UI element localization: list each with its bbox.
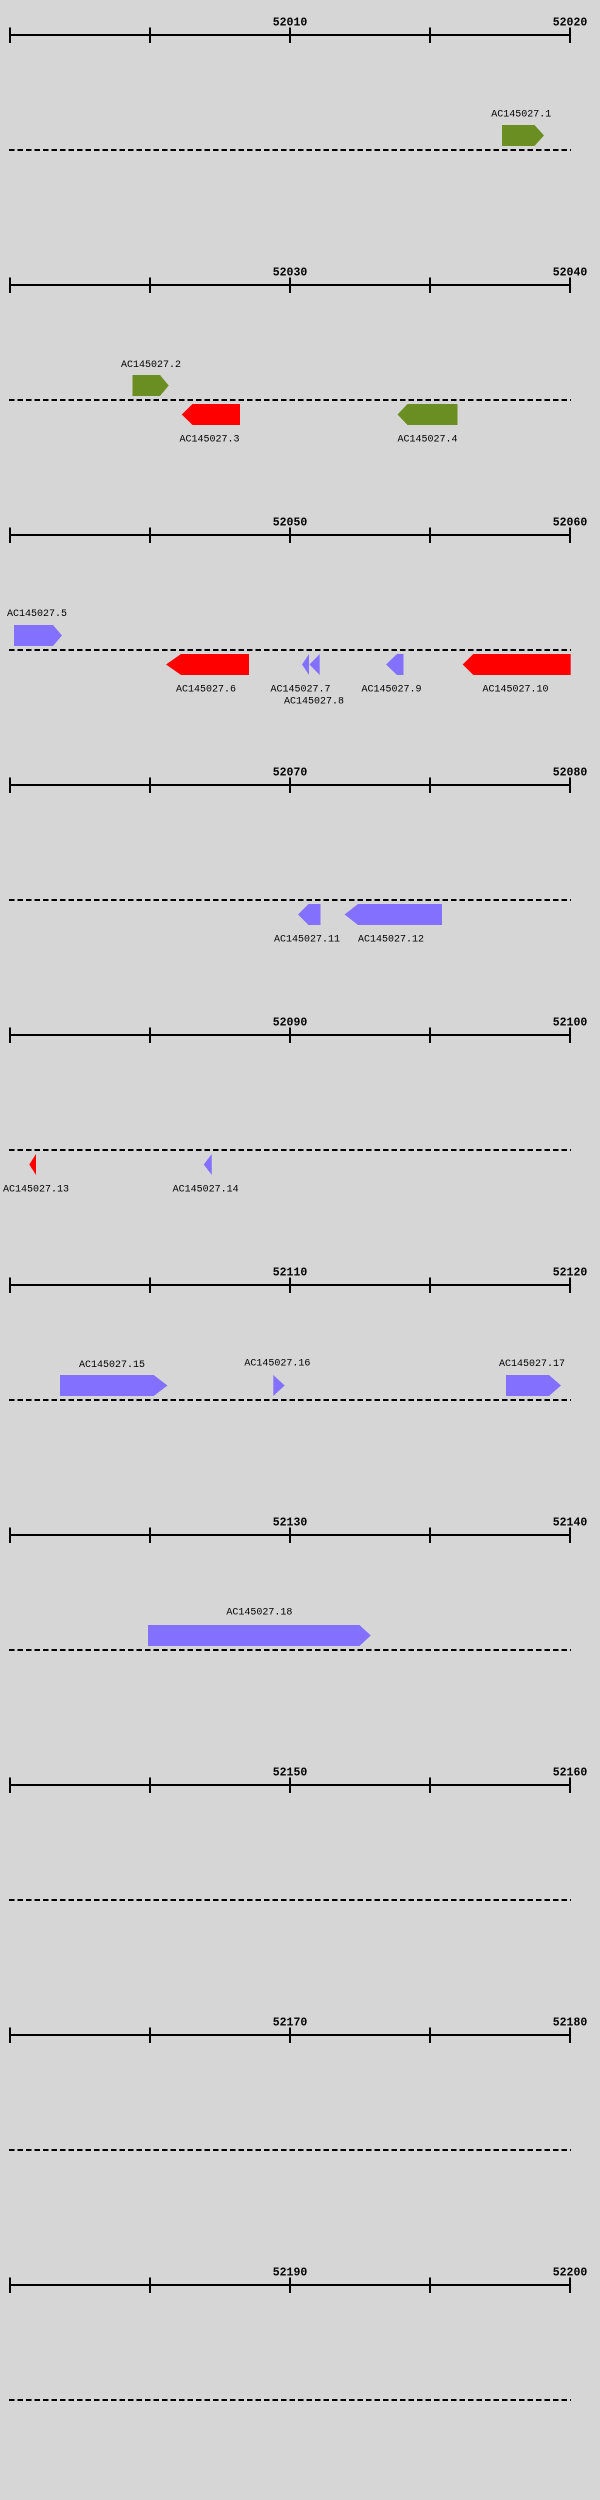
- svg-text:52180: 52180: [553, 2017, 588, 2030]
- label AC145027.6: [176, 685, 236, 696]
- ruler row 7: [9, 1528, 571, 1544]
- label AC145027.8: [284, 697, 344, 708]
- ruler label 52060: [553, 517, 588, 530]
- baseline row 7 (dashed): [9, 1649, 571, 1651]
- ruler label 52010: [273, 17, 308, 30]
- ruler label 52040: [553, 267, 588, 280]
- label AC145027.9: [361, 685, 421, 696]
- svg-text:52100: 52100: [553, 1017, 588, 1030]
- baseline row 3 (dashed): [9, 649, 571, 651]
- svg-text:52070: 52070: [273, 767, 308, 780]
- svg-text:52080: 52080: [553, 767, 588, 780]
- svg-text:52110: 52110: [273, 1267, 308, 1280]
- svg-text:52200: 52200: [553, 2267, 588, 2280]
- svg-text:52140: 52140: [553, 1517, 588, 1530]
- ruler row 4: [9, 778, 571, 794]
- ruler label 52090: [273, 1017, 308, 1030]
- gene AC145027.17 arrow: [506, 1375, 561, 1396]
- ruler label 52100: [553, 1017, 588, 1030]
- svg-text:AC145027.8: AC145027.8: [284, 697, 344, 708]
- ruler label 52150: [273, 1767, 308, 1780]
- gene AC145027.7 arrow: [302, 654, 309, 675]
- svg-text:AC145027.3: AC145027.3: [179, 435, 239, 446]
- label AC145027.16: [244, 1359, 310, 1370]
- ruler label 52190: [273, 2267, 308, 2280]
- label AC145027.3: [179, 435, 239, 446]
- svg-text:AC145027.15: AC145027.15: [79, 1360, 145, 1371]
- svg-text:AC145027.10: AC145027.10: [482, 685, 548, 696]
- label AC145027.15: [79, 1360, 145, 1371]
- gene AC145027.15 arrow: [60, 1375, 168, 1396]
- gene AC145027.12 arrow: [345, 904, 443, 925]
- baseline row 9 (dashed): [9, 2149, 571, 2151]
- baseline row 2 (dashed): [9, 399, 571, 401]
- gene AC145027.11 arrow: [298, 904, 321, 925]
- svg-text:52030: 52030: [273, 267, 308, 280]
- svg-text:AC145027.13: AC145027.13: [3, 1185, 69, 1196]
- gene AC145027.5 arrow: [14, 625, 62, 646]
- ruler label 52120: [553, 1267, 588, 1280]
- label AC145027.4: [397, 435, 457, 446]
- baseline row 5 (dashed): [9, 1149, 571, 1151]
- gene AC145027.1 arrow: [502, 125, 544, 146]
- ruler row 2: [9, 278, 571, 294]
- baseline row 10 (dashed): [9, 2399, 571, 2401]
- ruler label 52030: [273, 267, 308, 280]
- gene AC145027.3 arrow: [182, 404, 240, 425]
- ruler row 8: [9, 1778, 571, 1794]
- ruler row 6: [9, 1278, 571, 1294]
- svg-text:52090: 52090: [273, 1017, 308, 1030]
- gene AC145027.9 arrow: [386, 654, 404, 675]
- gene AC145027.18 arrow: [148, 1625, 371, 1646]
- ruler label 52170: [273, 2017, 308, 2030]
- svg-text:AC145027.17: AC145027.17: [499, 1359, 565, 1370]
- svg-text:AC145027.16: AC145027.16: [244, 1359, 310, 1370]
- svg-text:AC145027.4: AC145027.4: [397, 435, 457, 446]
- svg-text:AC145027.5: AC145027.5: [7, 609, 67, 620]
- ruler label 52050: [273, 517, 308, 530]
- label AC145027.1: [491, 110, 551, 121]
- gene AC145027.8 arrow: [310, 654, 320, 675]
- label AC145027.17: [499, 1359, 565, 1370]
- svg-text:52050: 52050: [273, 517, 308, 530]
- svg-text:52020: 52020: [553, 17, 588, 30]
- svg-text:AC145027.2: AC145027.2: [121, 360, 181, 371]
- svg-text:52160: 52160: [553, 1767, 588, 1780]
- svg-text:52170: 52170: [273, 2017, 308, 2030]
- ruler label 52080: [553, 767, 588, 780]
- ruler label 52160: [553, 1767, 588, 1780]
- gene AC145027.14 arrow: [204, 1154, 212, 1175]
- svg-text:AC145027.7: AC145027.7: [270, 685, 330, 696]
- svg-text:52040: 52040: [553, 267, 588, 280]
- ruler label 52180: [553, 2017, 588, 2030]
- svg-text:AC145027.1: AC145027.1: [491, 110, 551, 121]
- ruler label 52070: [273, 767, 308, 780]
- svg-text:52150: 52150: [273, 1767, 308, 1780]
- label AC145027.5: [7, 609, 67, 620]
- svg-text:AC145027.11: AC145027.11: [274, 935, 340, 946]
- svg-text:52060: 52060: [553, 517, 588, 530]
- ruler label 52130: [273, 1517, 308, 1530]
- svg-text:52010: 52010: [273, 17, 308, 30]
- svg-text:52120: 52120: [553, 1267, 588, 1280]
- label AC145027.12: [358, 935, 424, 946]
- ruler row 3: [9, 528, 571, 544]
- baseline row 6 (dashed): [9, 1399, 571, 1401]
- svg-text:AC145027.18: AC145027.18: [226, 1608, 292, 1619]
- svg-text:AC145027.14: AC145027.14: [173, 1185, 239, 1196]
- svg-text:AC145027.9: AC145027.9: [361, 685, 421, 696]
- label AC145027.7: [270, 685, 330, 696]
- gene AC145027.2 arrow: [133, 375, 169, 396]
- gene AC145027.13 arrow: [29, 1154, 36, 1175]
- svg-text:AC145027.6: AC145027.6: [176, 685, 236, 696]
- ruler label 52110: [273, 1267, 308, 1280]
- svg-text:52190: 52190: [273, 2267, 308, 2280]
- ruler row 1: [9, 28, 571, 44]
- ruler label 52140: [553, 1517, 588, 1530]
- ruler row 10: [9, 2278, 571, 2294]
- baseline row 8 (dashed): [9, 1899, 571, 1901]
- label AC145027.11: [274, 935, 340, 946]
- ruler row 5: [9, 1028, 571, 1044]
- ruler row 9: [9, 2028, 571, 2044]
- gene AC145027.4 arrow: [398, 404, 458, 425]
- label AC145027.13: [3, 1185, 69, 1196]
- svg-text:52130: 52130: [273, 1517, 308, 1530]
- label AC145027.10: [482, 685, 548, 696]
- ruler label 52200: [553, 2267, 588, 2280]
- svg-text:AC145027.12: AC145027.12: [358, 935, 424, 946]
- baseline row 4 (dashed): [9, 899, 571, 901]
- gene AC145027.10 arrow: [463, 654, 571, 675]
- label AC145027.14: [173, 1185, 239, 1196]
- label AC145027.18: [226, 1608, 292, 1619]
- label AC145027.2: [121, 360, 181, 371]
- baseline row 1 (dashed): [9, 149, 571, 151]
- ruler label 52020: [553, 17, 588, 30]
- gene AC145027.6 arrow: [166, 654, 249, 675]
- gene AC145027.16 arrow: [273, 1375, 284, 1396]
